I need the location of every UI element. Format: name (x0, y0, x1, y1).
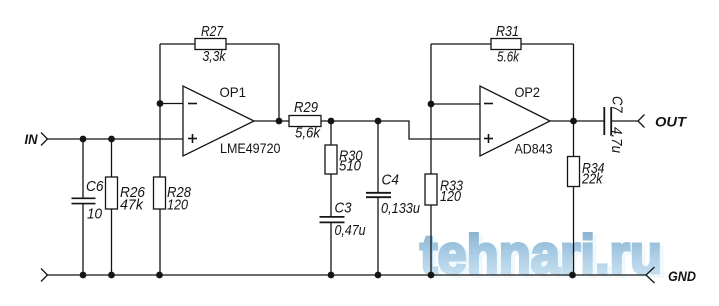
junction R28 ground (156, 272, 163, 279)
connector OUT chevron (638, 115, 645, 128)
watermark tehnari.ru (420, 223, 666, 288)
svg-text:C3: C3 (335, 200, 353, 217)
connector ground-left chevron (41, 269, 48, 282)
svg-text:OP2: OP2 (515, 84, 541, 100)
wire OP2 output to C7 (550, 120, 604, 122)
resistor R28 (154, 177, 192, 214)
wire OP1 minus input (160, 103, 183, 105)
junction OP2 inverting node (428, 101, 435, 108)
svg-text:120: 120 (167, 197, 189, 214)
connector IN chevron (41, 133, 48, 146)
wire C7 to OUT (611, 120, 638, 122)
capacitor C4 labels (381, 172, 421, 218)
junction R26 top (108, 136, 115, 143)
wire R27 right vertical to output (278, 44, 280, 121)
svg-text:5.6k: 5.6k (497, 49, 520, 66)
op-amp OP1 (183, 84, 281, 156)
wire C3 R30 vertical (330, 121, 332, 217)
wire R31 right vertical to output (573, 44, 575, 121)
wire IN to OP1 plus input (48, 138, 184, 140)
resistor R31 (491, 23, 521, 66)
resistor R33 (425, 174, 464, 205)
svg-text:OUT: OUT (655, 114, 688, 130)
resistor R34 (568, 157, 605, 188)
svg-text:3,3k: 3,3k (203, 48, 227, 65)
wire R26 vertical (111, 139, 113, 275)
resistor R29 (289, 99, 321, 142)
capacitor C7 plates (604, 107, 611, 135)
junction C6 ground (80, 272, 87, 279)
capacitor C7 labels (rotated) (608, 96, 626, 154)
wire OP1 output to jog (254, 121, 480, 139)
svg-text:5,6k: 5,6k (295, 125, 321, 142)
junction OP2 output node (570, 118, 577, 125)
svg-text:R27: R27 (201, 23, 224, 40)
connector GND chevron (646, 267, 655, 283)
svg-text:C6: C6 (86, 178, 104, 195)
op-amp OP2 (480, 84, 553, 157)
svg-text:R29: R29 (294, 99, 319, 116)
svg-text:AD843: AD843 (515, 141, 553, 157)
wire R27/R28 vertical (feedback node) (159, 44, 161, 275)
svg-text:C7: C7 (609, 96, 626, 113)
svg-text:tehnari.ru: tehnari.ru (420, 223, 662, 285)
junction R30 top (328, 118, 335, 125)
junction OP1 inverting node (157, 100, 164, 107)
junction R33 ground (428, 272, 435, 279)
wire R27 feedback top (160, 43, 279, 45)
wire R31/R33 vertical (430, 44, 432, 275)
svg-text:4,7u: 4,7u (608, 127, 625, 154)
svg-text:510: 510 (339, 157, 362, 174)
junction R34 ground (569, 272, 576, 279)
wire C4 vertical (377, 121, 379, 193)
svg-text:22k: 22k (581, 171, 604, 188)
junction OP1 output node (276, 118, 283, 125)
capacitor C3 labels (335, 200, 367, 240)
resistor R27 (195, 23, 227, 65)
svg-text:GND: GND (668, 268, 696, 284)
svg-text:LME49720: LME49720 (220, 140, 281, 156)
wire R31 feedback top (431, 43, 574, 45)
junction R26 ground (108, 272, 115, 279)
svg-text:10: 10 (87, 206, 103, 223)
resistor R30 (325, 145, 363, 174)
wire R34 vertical (573, 121, 575, 275)
svg-text:IN: IN (25, 131, 39, 147)
junction C4 ground (375, 272, 382, 279)
svg-text:0,133u: 0,133u (381, 200, 421, 217)
svg-text:OP1: OP1 (220, 84, 247, 100)
junction C6 top (80, 136, 87, 143)
wire ground rail (48, 274, 647, 276)
resistor R26 (106, 177, 146, 214)
capacitor C3 plates (320, 217, 345, 223)
svg-text:0,47u: 0,47u (335, 222, 367, 239)
svg-text:47k: 47k (120, 197, 144, 214)
capacitor C4 plates (366, 193, 391, 197)
junction C4 top (375, 118, 382, 125)
capacitor C6 plates (72, 198, 96, 203)
svg-text:120: 120 (440, 188, 462, 205)
junction C3 ground (328, 272, 335, 279)
svg-text:R31: R31 (496, 23, 519, 40)
wire C6 vertical (82, 139, 84, 198)
capacitor C6 labels (86, 178, 104, 223)
wire OP2 minus input (431, 103, 480, 105)
svg-text:C4: C4 (382, 172, 400, 189)
